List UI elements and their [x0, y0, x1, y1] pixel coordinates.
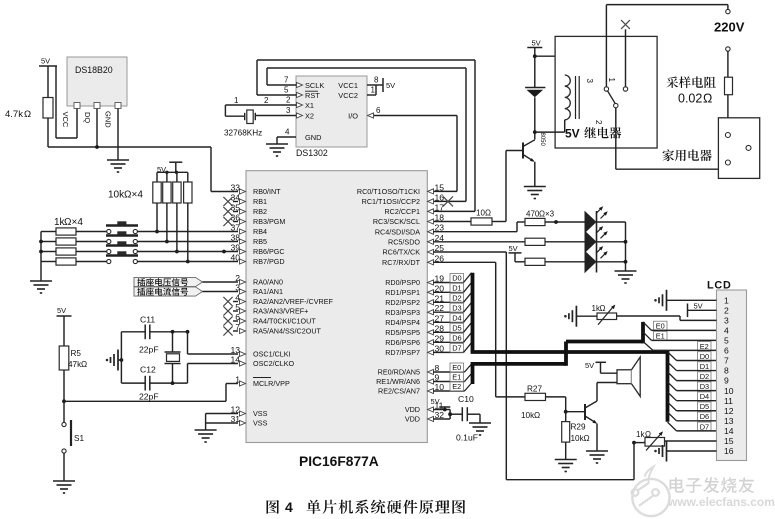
svg-text:RE1/WR/AN6: RE1/WR/AN6	[376, 377, 420, 386]
power 5V (relay driver)	[527, 39, 542, 88]
wire coil to collector	[533, 130, 537, 134]
no-connect mark RC1 wire	[443, 196, 453, 206]
switches S2-S5 keys	[106, 221, 238, 263]
svg-text:4: 4	[285, 128, 290, 137]
PIC16F877A U1	[246, 171, 427, 469]
svg-text:RA5/AN4/SS/C2OUT: RA5/AN4/SS/C2OUT	[253, 327, 322, 336]
svg-text:D2: D2	[452, 294, 461, 303]
svg-text:Ω: Ω	[584, 434, 590, 443]
no-connect pin 34	[223, 197, 238, 206]
svg-text:RC3/SCK/SCL: RC3/SCK/SCL	[373, 217, 420, 226]
resistor R27 10k	[521, 385, 566, 421]
svg-text:RD1/PSP1: RD1/PSP1	[385, 288, 420, 297]
diode D1 flyback	[525, 88, 545, 140]
ground (RP1)	[564, 306, 597, 327]
svg-text:D3: D3	[452, 303, 461, 312]
wires D0-D7 to bus	[433, 273, 472, 353]
svg-text:4: 4	[285, 499, 293, 515]
pullup bus wire	[157, 171, 188, 182]
capacitor C11 22pF	[121, 315, 187, 355]
no-connect pin 4	[223, 297, 238, 306]
no-connect pin 35	[223, 207, 238, 216]
appliance box	[718, 118, 759, 179]
svg-text:GND: GND	[104, 111, 113, 128]
svg-text:GND: GND	[305, 133, 321, 142]
svg-text:8050: 8050	[539, 133, 545, 147]
svg-text:C12: C12	[140, 365, 156, 375]
svg-text:0.1uF: 0.1uF	[456, 433, 478, 443]
resistor R-led2 470	[525, 238, 585, 245]
label 5V relay	[565, 127, 621, 141]
ground (LEDs)	[615, 271, 637, 283]
svg-text:2: 2	[264, 96, 269, 105]
svg-text:RC2/CCP1: RC2/CCP1	[384, 207, 420, 216]
no-connect pin 5	[223, 306, 238, 315]
svg-text:RD0/PSP0: RD0/PSP0	[385, 278, 420, 287]
DS18B20 U3	[67, 57, 127, 106]
wire VDD rows	[433, 408, 450, 419]
svg-text:Ω: Ω	[703, 92, 712, 106]
svg-text:8: 8	[724, 366, 729, 376]
svg-text:Ω: Ω	[24, 109, 31, 120]
power 5V (LCD pin2)	[688, 302, 717, 318]
wire OSC2	[188, 364, 239, 384]
svg-text:D1: D1	[700, 362, 709, 371]
capacitor C12 22pF	[121, 365, 187, 402]
no-connect pin 36	[223, 217, 238, 226]
svg-text:8: 8	[374, 76, 379, 85]
svg-text:PIC16F877A: PIC16F877A	[299, 454, 379, 469]
ground (C10)	[469, 423, 491, 435]
svg-text:E0: E0	[656, 321, 665, 330]
wire Q2 collector	[597, 383, 617, 402]
resistor R29 10k	[562, 412, 590, 460]
switch S1 reset	[62, 401, 85, 481]
svg-text:D6: D6	[452, 334, 461, 343]
wire VSS	[206, 414, 238, 431]
svg-text:SCLK: SCLK	[305, 81, 324, 90]
wire 220V feed	[606, 5, 730, 14]
terminal appliance right	[746, 145, 751, 150]
svg-text:6: 6	[376, 106, 381, 115]
svg-text:15: 15	[724, 436, 734, 446]
svg-text:9: 9	[724, 376, 729, 386]
svg-text:32768KHz: 32768KHz	[224, 129, 262, 138]
svg-text:RC0/T1OSO/T1CKI: RC0/T1OSO/T1CKI	[357, 187, 420, 196]
svg-text:5V: 5V	[41, 57, 50, 66]
power 5V (pullups)	[157, 162, 182, 174]
svg-text:5V: 5V	[57, 306, 66, 315]
bus E horizontal	[471, 362, 566, 366]
svg-text:RA1/AN1: RA1/AN1	[253, 287, 283, 296]
ground (VSS)	[195, 430, 217, 442]
svg-text:VSS: VSS	[253, 409, 268, 418]
svg-text:RST: RST	[305, 91, 320, 100]
relay contact NO	[621, 20, 630, 91]
LCD connector J1	[707, 280, 747, 461]
bus E jog up	[564, 342, 568, 366]
ground (DS1302)	[266, 144, 288, 156]
wire LCD15 backlight	[665, 440, 717, 442]
transistor Q1 8050	[506, 133, 545, 164]
ground rail (keys)	[39, 232, 43, 282]
PIC left pin labels	[230, 183, 333, 428]
svg-text:D7: D7	[700, 422, 709, 431]
svg-text:E0: E0	[452, 363, 461, 372]
watermark text	[667, 477, 775, 509]
wire osc left	[120, 332, 122, 383]
svg-text:D0: D0	[700, 352, 709, 361]
svg-text:RA4/T0CKI/C1OUT: RA4/T0CKI/C1OUT	[253, 317, 316, 326]
resistor R-led3 470	[525, 258, 585, 265]
svg-text:RE0/RD/AN5: RE0/RD/AN5	[378, 368, 420, 377]
power 5V (DS18B20)	[39, 57, 57, 139]
svg-text:4: 4	[724, 326, 729, 336]
bus E vertical	[471, 364, 475, 384]
svg-text:RD3/PSP3: RD3/PSP3	[385, 308, 420, 317]
svg-text:1: 1	[234, 96, 239, 105]
PIC right pin labels	[357, 182, 444, 423]
caption figure 4	[267, 499, 466, 515]
svg-text:RB4: RB4	[253, 227, 267, 236]
svg-text:33: 33	[230, 183, 240, 193]
svg-text:RC6/TX/CK: RC6/TX/CK	[382, 248, 420, 257]
svg-text:RA3/AN3/VREF+: RA3/AN3/VREF+	[253, 307, 308, 316]
bus E rise at LCD	[641, 322, 645, 344]
net flag socket current signal	[134, 287, 238, 296]
svg-text:2: 2	[594, 120, 603, 125]
svg-text:VCC: VCC	[61, 112, 70, 128]
wire RC3 to base	[497, 151, 506, 222]
ground (Q2)	[586, 451, 608, 463]
pin X1	[225, 96, 314, 111]
svg-text:VSS: VSS	[253, 419, 268, 428]
bus E upper horizontal	[566, 340, 643, 344]
svg-text:10k: 10k	[108, 190, 125, 201]
crystal Y2 32768KHz	[224, 96, 269, 138]
svg-text:R27: R27	[527, 385, 542, 394]
ground (S1)	[53, 481, 75, 493]
label 220V	[714, 20, 745, 35]
svg-text:3: 3	[585, 79, 594, 84]
bus D down to LCD	[666, 350, 670, 422]
svg-text:OSC2/CLKO: OSC2/CLKO	[253, 359, 295, 368]
power 5V (LED3)	[509, 244, 526, 262]
svg-text:1: 1	[371, 86, 376, 95]
svg-text:16: 16	[435, 192, 445, 202]
svg-text:D0: D0	[452, 274, 461, 283]
label appliance	[663, 149, 712, 161]
svg-text:D2: D2	[700, 372, 709, 381]
transistor Q2	[585, 401, 598, 425]
svg-text:7: 7	[284, 76, 289, 85]
capacitor C10 0.1uF	[448, 394, 480, 443]
svg-text:RD5/PSP5: RD5/PSP5	[385, 328, 420, 337]
speaker LS1	[617, 357, 640, 396]
svg-text:D6: D6	[700, 412, 709, 421]
svg-text:D5: D5	[700, 402, 709, 411]
ground (osc)	[106, 350, 124, 371]
svg-text:3: 3	[724, 316, 729, 326]
svg-text:5V: 5V	[532, 39, 541, 48]
svg-text:RC5/SDO: RC5/SDO	[388, 237, 420, 246]
pin VCC2	[338, 85, 376, 100]
svg-text:VCC2: VCC2	[338, 91, 358, 100]
svg-text:D1: D1	[452, 284, 461, 293]
svg-text:E1: E1	[656, 332, 665, 341]
svg-text:0.02: 0.02	[678, 92, 702, 106]
svg-text:Ω: Ω	[81, 360, 87, 369]
node RB6 junction	[222, 250, 226, 254]
svg-text:I/O: I/O	[348, 112, 358, 121]
wire LCD1 gnd	[667, 299, 717, 301]
wire RC5 to LED2	[433, 241, 525, 243]
wire E1 to LCD5	[643, 331, 717, 340]
pin X2	[255, 106, 314, 121]
svg-text:RB7/PGD: RB7/PGD	[253, 257, 285, 266]
svg-text:22pF: 22pF	[139, 392, 159, 402]
wires E0-E2 to bus	[433, 363, 472, 391]
wire RST to RC2	[257, 60, 475, 211]
power 5V (VDD)	[431, 397, 451, 410]
svg-text:RD7/PSP7: RD7/PSP7	[385, 348, 420, 357]
wire RC7 to R27	[433, 262, 525, 397]
svg-text:R29: R29	[571, 423, 586, 432]
svg-text:RD6/PSP6: RD6/PSP6	[385, 338, 420, 347]
power 5V (DS1302)	[383, 78, 395, 92]
wire E2 to LCD6	[643, 342, 717, 351]
ground (LCD pin16)	[654, 441, 666, 462]
no-connect pin 7	[223, 326, 238, 335]
ground (LCD pin1)	[654, 290, 666, 311]
svg-text:Ω: Ω	[485, 209, 491, 218]
svg-text:OSC1/CLKI: OSC1/CLKI	[253, 350, 291, 359]
svg-text:5V: 5V	[509, 244, 518, 253]
svg-text:10k: 10k	[571, 434, 585, 443]
svg-text:www.elecfans.com: www.elecfans.com	[667, 495, 775, 509]
svg-text:17: 17	[435, 202, 445, 212]
pin GND (DS18B20)	[104, 103, 122, 161]
svg-text:10k: 10k	[521, 411, 535, 420]
svg-text:E2: E2	[452, 382, 461, 391]
svg-text:4.7k: 4.7k	[5, 109, 23, 120]
svg-text:C10: C10	[458, 394, 474, 404]
svg-text:5: 5	[284, 86, 289, 95]
svg-text:5: 5	[724, 336, 729, 346]
label sampling resistor	[666, 76, 716, 105]
wire LCD3 contrast	[617, 316, 717, 320]
svg-text:RB5: RB5	[253, 237, 267, 246]
svg-text:11: 11	[724, 396, 733, 406]
svg-text:D5: D5	[452, 324, 461, 333]
svg-text:7: 7	[724, 356, 729, 366]
svg-text:14: 14	[724, 426, 734, 436]
svg-text:12: 12	[724, 406, 734, 416]
resistor R-led1 470	[525, 218, 585, 225]
resistor R5 47k	[59, 346, 87, 401]
svg-text:Ω: Ω	[534, 411, 540, 420]
bus D horizontal	[471, 350, 668, 354]
net flag socket voltage signal	[134, 277, 238, 286]
svg-text:VDD: VDD	[405, 415, 420, 424]
label 1k x4	[54, 217, 83, 228]
svg-text:6: 6	[724, 346, 729, 356]
relay switch blade	[594, 91, 618, 125]
svg-text:RD4/PSP4: RD4/PSP4	[385, 318, 420, 327]
svg-text:5V: 5V	[386, 81, 395, 90]
svg-text:16: 16	[724, 446, 734, 456]
resistor R-sample 0.02	[725, 77, 733, 132]
LED D4	[585, 245, 626, 273]
pin SCLK	[267, 76, 324, 91]
node relay supply	[533, 54, 565, 75]
svg-text:DS1302: DS1302	[296, 148, 328, 158]
node R27/R29/base	[564, 410, 585, 414]
resistor network 10k x4	[153, 182, 192, 263]
bus D vertical	[471, 273, 475, 352]
resistor network 1k x4	[41, 228, 108, 265]
svg-text:RB6/PGC: RB6/PGC	[253, 247, 285, 256]
ground (R29)	[555, 460, 577, 472]
wire RC6 down	[433, 252, 634, 480]
svg-text:2: 2	[724, 306, 729, 316]
svg-text:DS18B20: DS18B20	[75, 65, 113, 75]
svg-text:Ω: Ω	[600, 304, 606, 313]
wires D0-D7 to LCD	[668, 352, 717, 432]
potentiometer RP1 1k	[592, 303, 617, 324]
svg-text:3: 3	[286, 106, 291, 115]
LED cathode bar	[596, 211, 598, 273]
svg-text:RA2/AN2/VREF-/CVREF: RA2/AN2/VREF-/CVREF	[253, 297, 333, 306]
svg-text:5V: 5V	[565, 127, 580, 141]
svg-text:47k: 47k	[68, 360, 82, 369]
svg-text:RB2: RB2	[253, 207, 267, 216]
potentiometer RP2 backlight	[632, 430, 664, 451]
svg-text:RC7/RX/DT: RC7/RX/DT	[382, 258, 421, 267]
svg-text:RC4/SDI/SDA: RC4/SDI/SDA	[375, 227, 420, 236]
LED cathode rail	[624, 222, 628, 271]
svg-text:1: 1	[607, 78, 616, 83]
terminal appliance bottom	[725, 160, 730, 165]
svg-text:RD2/PSP2: RD2/PSP2	[385, 298, 420, 307]
terminal appliance top	[725, 133, 730, 138]
watermark logo	[632, 467, 670, 516]
svg-text:18: 18	[435, 213, 445, 223]
svg-text:E2: E2	[700, 342, 709, 351]
wire DQ to RB0/INT	[48, 145, 238, 191]
wire Q2 emitter	[596, 424, 598, 452]
svg-text:5V: 5V	[431, 397, 440, 406]
pin GND (DS1302)	[277, 128, 321, 145]
resistor R-base 10	[433, 209, 497, 226]
wire E0 to LCD4	[643, 321, 717, 330]
svg-text:DQ: DQ	[83, 112, 92, 123]
svg-text:RB3/PGM: RB3/PGM	[253, 217, 285, 226]
power 5V (MCLR)	[57, 306, 72, 346]
svg-text:S1: S1	[74, 434, 84, 443]
ground (keys)	[30, 281, 52, 293]
ground (Q1 emitter)	[524, 187, 546, 199]
svg-text:MCLR/VPP: MCLR/VPP	[253, 379, 290, 388]
label 10k x4	[108, 190, 143, 201]
terminal 220V	[726, 47, 730, 77]
svg-text:Ω×4: Ω×4	[124, 190, 143, 201]
wire blade to appliance	[616, 108, 728, 169]
pin I/O	[348, 106, 457, 121]
svg-text:E1: E1	[452, 373, 461, 382]
svg-text:5V: 5V	[694, 302, 703, 311]
pin VCC1	[338, 76, 383, 91]
relay coil K1	[535, 75, 594, 132]
power 5V (speaker)	[585, 361, 617, 373]
svg-text:VDD: VDD	[405, 405, 420, 414]
no-connect pin 6	[223, 316, 238, 325]
svg-text:22pF: 22pF	[139, 345, 159, 355]
svg-text:D4: D4	[700, 392, 709, 401]
svg-text:Ω×4: Ω×4	[64, 217, 83, 228]
DS1302 U2	[296, 76, 367, 158]
svg-text:220V: 220V	[714, 20, 745, 35]
svg-text:470: 470	[526, 210, 540, 219]
resistor 4.7k pull-up	[5, 98, 53, 148]
svg-text:RC1/T1OSI/CCP2: RC1/T1OSI/CCP2	[362, 197, 420, 206]
wire RC4 to LED1	[433, 222, 525, 232]
pin DQ (DS18B20)	[83, 103, 100, 148]
label 470 x3	[526, 210, 555, 219]
wire OSC1	[186, 330, 238, 354]
svg-text:R5: R5	[71, 349, 82, 358]
svg-text:Ω×3: Ω×3	[539, 210, 555, 219]
LED D3	[585, 225, 626, 253]
svg-text:1: 1	[724, 296, 729, 306]
svg-text:RB1: RB1	[253, 197, 267, 206]
wire emitter to ground	[534, 162, 536, 187]
svg-text:RE2/CS/AN7: RE2/CS/AN7	[378, 387, 420, 396]
crystal Y1	[165, 330, 181, 385]
wire MCLR	[62, 384, 238, 404]
svg-text:15: 15	[435, 182, 445, 192]
wire SCLK to RC1	[267, 68, 466, 201]
wire LCD16 gnd	[667, 450, 717, 452]
pin RST	[257, 86, 320, 101]
svg-text:X2: X2	[305, 112, 314, 121]
svg-text:VCC1: VCC1	[338, 81, 358, 90]
svg-text:X1: X1	[305, 101, 314, 110]
wire I/O to RC0	[433, 116, 457, 192]
relay box 5V relay	[555, 36, 657, 148]
svg-text:D3: D3	[700, 382, 709, 391]
svg-text:D4: D4	[452, 314, 461, 323]
ground (DS18B20)	[107, 160, 129, 172]
svg-text:5V: 5V	[585, 361, 594, 370]
svg-text:10: 10	[724, 386, 734, 396]
svg-text:D7: D7	[452, 344, 461, 353]
relay contact common	[604, 5, 616, 92]
svg-text:RA0/AN0: RA0/AN0	[253, 278, 283, 287]
LED D2	[585, 205, 626, 233]
svg-text:C11: C11	[140, 315, 155, 325]
svg-text:2: 2	[286, 96, 291, 105]
pin VCC (DS18B20)	[56, 103, 80, 139]
svg-text:RB0/INT: RB0/INT	[253, 187, 281, 196]
svg-text:13: 13	[724, 416, 734, 426]
